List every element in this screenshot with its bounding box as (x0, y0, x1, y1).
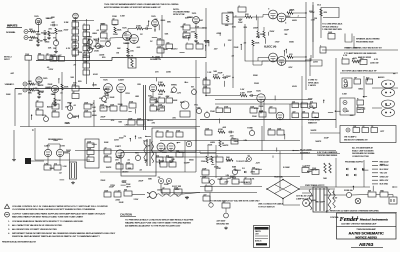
wire (31, 160, 44, 162)
wire bus (61, 72, 63, 110)
svg-text:500PF: 500PF (41, 32, 48, 34)
svg-text:100PF: 100PF (64, 151, 71, 153)
wire (286, 60, 306, 62)
power transformer T1 (313, 187, 327, 212)
wire (363, 76, 365, 98)
svg-text:20UF: 20UF (253, 27, 259, 29)
wire (120, 92, 122, 106)
svg-text:25UF: 25UF (324, 137, 330, 139)
svg-text:OUT: OUT (360, 58, 364, 60)
svg-text:8: 8 (342, 57, 343, 59)
tube V8A 12AT7 recovery (116, 150, 124, 158)
svg-text:.047: .047 (203, 194, 206, 196)
resistor R68 (150, 106, 157, 111)
wire bus (75, 19, 77, 58)
svg-text:.02: .02 (158, 96, 160, 98)
svg-text:SW: SW (368, 190, 371, 192)
ladder resistor R46 (83, 63, 90, 68)
svg-text:500PF: 500PF (315, 141, 322, 143)
svg-text:.02: .02 (239, 20, 242, 22)
capacitor C7 .02 (83, 53, 90, 58)
wire (335, 158, 337, 187)
wire (200, 186, 262, 188)
resistor R9 .02 (72, 36, 79, 41)
speaker jack oval 4 (382, 109, 395, 117)
wire (263, 99, 265, 141)
svg-text:TO RCA JACK: TO RCA JACK (238, 181, 251, 184)
tube V7A 12AT7 (44, 149, 51, 156)
svg-text:100PF: 100PF (311, 130, 318, 132)
boxes row bottom 2 (232, 179, 239, 184)
svg-text:1402 EAST CHESTNUT SANTA ANA: 1402 EAST CHESTNUT SANTA ANA CALIF (341, 223, 377, 226)
wire bus (289, 104, 291, 120)
svg-text:1.5K: 1.5K (207, 72, 212, 74)
diode D6 (354, 174, 356, 176)
pot R96 (249, 130, 254, 135)
wire (190, 27, 206, 29)
boxes row low 3 (312, 113, 319, 118)
wire color legend (372, 161, 378, 163)
svg-text:ALL CAPACITOR VALUES IN UF UNL: ALL CAPACITOR VALUES IN UF UNLESS NOTED (12, 224, 62, 227)
kit resistor 2 (371, 128, 378, 133)
wire (300, 186, 370, 188)
box pair bottom (128, 120, 135, 125)
bias feed resistor R34 (252, 40, 254, 46)
svg-text:VIBRATO: VIBRATO (5, 83, 15, 86)
ground (38, 96, 40, 97)
output tube V8 6L6GC (277, 13, 286, 22)
svg-text:LIST: LIST (255, 234, 259, 236)
resistor R50 plate (61, 84, 63, 90)
svg-text:SPKR JACK: SPKR JACK (308, 81, 319, 84)
svg-text:TO 4 OHM SPKR JACK: TO 4 OHM SPKR JACK (322, 23, 343, 26)
resistor R66 (158, 84, 165, 87)
svg-text:220K: 220K (255, 43, 260, 45)
svg-text:Musical Instruments: Musical Instruments (359, 218, 389, 222)
svg-text:NOTICE AB763: NOTICE AB763 (356, 236, 378, 240)
svg-text:20UF: 20UF (101, 117, 107, 119)
box pair 2 (366, 79, 373, 84)
resistor R79 (342, 59, 349, 64)
resistor R10 250P (72, 43, 79, 48)
ladder capacitor C22 (83, 70, 90, 75)
coil right (151, 141, 153, 163)
svg-text:4.7K: 4.7K (129, 56, 134, 58)
svg-text:220K: 220K (290, 9, 295, 11)
svg-text:VIB TO AMP 4: VIB TO AMP 4 (344, 136, 356, 139)
svg-text:470K: 470K (143, 140, 148, 142)
svg-text:PILOT LIGHT: PILOT LIGHT (300, 150, 312, 152)
svg-text:100PF: 100PF (38, 85, 45, 87)
resistor R51 cathode (54, 98, 56, 103)
svg-text:20UF: 20UF (138, 180, 144, 182)
svg-text:.02: .02 (36, 100, 38, 102)
ladder resistor R45 (83, 56, 90, 61)
svg-text:INPUT: INPUT (4, 59, 11, 61)
svg-text:440V: 440V (286, 16, 291, 18)
svg-text:6.3V TO ALL HEATERS: 6.3V TO ALL HEATERS (317, 151, 338, 154)
box C32 (360, 60, 367, 65)
svg-text:470: 470 (310, 101, 313, 103)
wire (64, 152, 70, 154)
svg-text:170V: 170V (275, 42, 280, 44)
treble pot R18 (88, 40, 93, 45)
resistor R23 cathode 1500 (127, 48, 129, 54)
wire stubs (386, 104, 390, 106)
svg-text:470K: 470K (217, 33, 222, 35)
svg-text:4.7K: 4.7K (374, 59, 379, 61)
svg-text:170V: 170V (306, 166, 311, 168)
svg-text:1.5K: 1.5K (63, 166, 68, 168)
wire bus (232, 12, 234, 62)
vibrato bug opto (181, 101, 189, 109)
resistor R17 (114, 27, 116, 33)
wire (372, 87, 398, 89)
capacitor C25 (120, 106, 127, 111)
wire (100, 171, 196, 173)
wire (301, 76, 303, 126)
svg-text:1M: 1M (104, 102, 107, 104)
boxes row low 2 (302, 113, 309, 118)
wire (352, 194, 368, 197)
resistor R11 10K (72, 50, 79, 55)
resistor R3 1M grid (37, 38, 39, 43)
svg-text:AUDIO: AUDIO (235, 169, 242, 172)
panel box 2 (166, 132, 173, 137)
resistor R49 1M (38, 90, 40, 95)
driver transformer core (146, 139, 148, 166)
extra box (216, 108, 223, 113)
resistor R2 68K (30, 36, 36, 38)
wire (15, 88, 22, 90)
ladder right cluster resistor R59 (84, 104, 91, 109)
svg-text:330K: 330K (163, 49, 168, 51)
wire (112, 58, 162, 61)
wire (263, 27, 265, 31)
wire (38, 25, 40, 32)
bass pot R58 (68, 114, 73, 119)
svg-text:220K: 220K (36, 34, 41, 36)
svg-text:250K: 250K (208, 144, 213, 146)
wire (79, 88, 100, 90)
kit capacitor (362, 128, 369, 133)
wire (36, 32, 39, 38)
resistor R55 (52, 112, 59, 117)
box pair 1 (354, 79, 361, 84)
svg-text:410V: 410V (157, 190, 162, 192)
cluster box (203, 196, 210, 201)
power switch SW1 (368, 192, 376, 197)
resistor R73 (203, 88, 210, 93)
svg-text:LIN: LIN (244, 140, 248, 142)
svg-text:LIN: LIN (226, 175, 230, 177)
input jack J2 (24, 36, 28, 40)
wire (100, 38, 123, 42)
svg-text:100K: 100K (49, 168, 54, 170)
wire (47, 157, 49, 165)
speaker jack oval 1 (382, 80, 395, 88)
resistor R85 (87, 143, 94, 148)
svg-text:220K 1W: 220K 1W (370, 63, 378, 65)
svg-text:YEL 52V: YEL 52V (380, 173, 388, 175)
wire (283, 199, 300, 206)
panel jack circle (186, 141, 192, 147)
svg-text:250K: 250K (92, 85, 97, 87)
speaker jack oval 3 (382, 100, 395, 108)
resistor R22 100K plate (136, 27, 143, 30)
AC plug P1 (389, 197, 397, 204)
bracket rect 2 (340, 98, 355, 115)
svg-text:330K: 330K (117, 30, 122, 32)
svg-text:100K: 100K (58, 31, 63, 33)
svg-text:100K: 100K (173, 100, 178, 102)
svg-text:AUDIO: AUDIO (378, 76, 385, 79)
svg-text:RED 410V: RED 410V (380, 162, 390, 164)
wire (279, 151, 281, 190)
svg-text:410V: 410V (98, 45, 103, 47)
feedback loop wire (245, 24, 311, 61)
svg-text:.003: .003 (227, 178, 231, 180)
svg-text:1M: 1M (90, 104, 93, 106)
svg-text:100K: 100K (187, 17, 192, 19)
wire bus (195, 130, 197, 172)
svg-text:.02: .02 (183, 23, 185, 25)
svg-text:.047: .047 (269, 106, 272, 108)
tube V3A 7025 (193, 17, 200, 24)
svg-text:VOL: VOL (105, 39, 108, 41)
wire stubs (224, 81, 226, 87)
note marker circle (5, 212, 10, 217)
wire bus (309, 58, 311, 76)
speed pot R70 (172, 88, 177, 93)
RCA jack J7 to reverb (25, 158, 31, 164)
svg-text:170V: 170V (60, 145, 65, 147)
capacitor C28 tremolo .02 (166, 98, 173, 103)
wire bus (161, 15, 163, 58)
diode D1 (244, 171, 246, 173)
wire (253, 61, 269, 65)
wire (388, 195, 393, 198)
wire (320, 20, 322, 38)
long wire (156, 152, 216, 154)
wire (107, 92, 109, 99)
svg-text:1.6V: 1.6V (116, 190, 121, 192)
RCA jack J9 (166, 178, 171, 183)
input jack J4 (23, 88, 27, 92)
svg-text:SPEAKER JACKS VIEWED: SPEAKER JACKS VIEWED (356, 38, 380, 41)
boxes row low (292, 113, 299, 118)
svg-text:.047: .047 (58, 55, 61, 57)
svg-text:100K: 100K (6, 94, 11, 96)
svg-text:330K: 330K (234, 141, 239, 143)
volume pot R6 1M (53, 40, 58, 45)
resistor R63 (100, 106, 107, 111)
capacitor C24 (36, 102, 43, 107)
svg-text:25UF: 25UF (247, 92, 253, 94)
capacitor C27 tremolo .02 (158, 98, 165, 103)
svg-text:500PF: 500PF (184, 162, 191, 164)
wire bus (86, 58, 88, 84)
socket circle (303, 200, 310, 207)
svg-text:250K: 250K (252, 116, 257, 118)
wire (132, 194, 145, 196)
bracket wire (345, 34, 352, 43)
output tube V9 6L6GC (269, 53, 278, 62)
svg-text:OUTPUT TUBES MATCHED PAIRS SUP: OUTPUT TUBES MATCHED PAIRS SUPPLIED WITH… (12, 212, 106, 215)
wire (72, 20, 94, 22)
panel box 1 (156, 132, 163, 137)
resistor R104 (252, 169, 259, 174)
wire (353, 36, 355, 48)
ladder capacitor C21 (58, 57, 65, 62)
svg-text:TONE: TONE (247, 128, 253, 130)
svg-text:250V: 250V (226, 76, 231, 78)
screen resistor R75 470 (287, 56, 293, 59)
tube V4B 7025 (104, 84, 113, 93)
wire (252, 17, 258, 31)
ground cap C54 (222, 203, 230, 208)
bias pot R103 (232, 169, 237, 174)
long wire (340, 72, 398, 74)
svg-text:MID BOOST CHANNEL KIT: MID BOOST CHANNEL KIT (344, 139, 368, 142)
wire (372, 107, 382, 109)
resistor R36 (328, 34, 335, 40)
ground (127, 54, 129, 55)
ground (225, 227, 227, 228)
mixing resistor R74 3.3M (213, 76, 220, 79)
svg-text:220K: 220K (126, 184, 131, 186)
svg-text:500PF: 500PF (230, 176, 236, 178)
svg-text:TIP BLK GRN BLU: TIP BLK GRN BLU (322, 26, 339, 28)
svg-text:.02: .02 (104, 147, 106, 149)
svg-text:440V: 440V (105, 89, 110, 91)
wire (154, 26, 156, 32)
wire bus mid3 (200, 153, 340, 155)
svg-text:SW: SW (124, 189, 127, 191)
wire (302, 192, 310, 194)
resistor R88 (116, 164, 123, 169)
svg-text:RED 405V: RED 405V (380, 165, 390, 167)
wire stubs (224, 44, 226, 47)
wire vertical (34, 128, 36, 160)
svg-text:125P34A: 125P34A (330, 216, 339, 219)
svg-text:100K: 100K (155, 58, 160, 60)
input jack J1 (24, 30, 28, 34)
boxes row mid (292, 103, 299, 108)
svg-text:20UF: 20UF (110, 97, 116, 99)
capacitor C50 (302, 168, 309, 173)
ground switch SW2 (380, 192, 388, 197)
svg-text:25UF: 25UF (101, 180, 107, 182)
svg-text:.047: .047 (199, 20, 203, 22)
svg-text:1.6V: 1.6V (240, 89, 245, 91)
circle jack (209, 203, 213, 207)
resistor R93 (176, 152, 183, 157)
resistor R87 (104, 157, 111, 162)
boxes row mid 3 (310, 103, 317, 108)
svg-text:225V: 225V (191, 32, 196, 34)
svg-text:1M: 1M (314, 18, 317, 20)
wire (200, 176, 300, 178)
tube V7B (56, 149, 63, 156)
wire (310, 132, 340, 134)
line cord (156, 194, 180, 197)
feedback loop wire (321, 8, 339, 21)
resistor R67 (158, 90, 165, 93)
capacitor C9 (112, 20, 118, 25)
resistor R86 (87, 150, 94, 155)
svg-text:250K: 250K (218, 179, 223, 181)
svg-text:CAUTION: CAUTION (120, 213, 132, 217)
resistor R54 (52, 104, 59, 109)
svg-text:225V: 225V (114, 139, 119, 141)
svg-text:AB763: AB763 (359, 242, 374, 247)
wire bus (152, 92, 154, 98)
resistor R99 (219, 140, 221, 147)
wire (205, 62, 207, 96)
feedback resistor R35 820 (320, 9, 322, 16)
wire (252, 46, 254, 61)
coil left (144, 141, 146, 163)
svg-text:.1: .1 (238, 5, 239, 7)
capacitor C12 .02 (183, 25, 190, 30)
coupling cap C42 (104, 149, 111, 154)
resistor R72 (203, 80, 210, 85)
svg-text:470K: 470K (216, 168, 221, 170)
wire bus (205, 8, 207, 58)
resistor R108 (312, 170, 319, 175)
wire (200, 192, 257, 194)
svg-text:INT: INT (191, 87, 194, 89)
svg-text:330K: 330K (53, 140, 58, 142)
reverb pot R90 (135, 155, 140, 160)
wire (299, 188, 335, 190)
diode D4 (362, 168, 364, 170)
jack circle 3 (343, 101, 347, 105)
svg-text:410V: 410V (308, 99, 313, 101)
box right 3 (357, 100, 364, 105)
svg-text:500PF: 500PF (223, 145, 230, 147)
wire (55, 34, 57, 40)
wire bus (215, 145, 217, 178)
capacitor C52 (114, 192, 121, 197)
ground (260, 110, 262, 111)
svg-text:20UF: 20UF (119, 202, 125, 204)
long wire (322, 49, 398, 51)
capacitor C6 6800 (83, 46, 90, 51)
svg-text:.02: .02 (244, 177, 246, 179)
svg-text:TO PREVENT A FAULT CONDITION W: TO PREVENT A FAULT CONDITION WHICH MAY R… (125, 219, 194, 222)
capacitor C43 (229, 131, 231, 134)
wire bus (261, 126, 263, 151)
svg-text:250V: 250V (238, 22, 243, 24)
resistor R1 68K (30, 30, 36, 32)
plate bus wire (305, 2, 307, 55)
svg-text:.02: .02 (362, 126, 364, 128)
svg-text:.1: .1 (235, 15, 237, 17)
capacitor C5 .047 (83, 39, 90, 44)
capacitor C29 (223, 76, 225, 79)
svg-text:330K: 330K (289, 41, 294, 43)
tube V6A 7025 mixer (257, 94, 265, 102)
svg-text:25UF: 25UF (218, 73, 224, 75)
svg-text:25UF: 25UF (113, 34, 119, 36)
bias balance diamond bridge (267, 180, 299, 199)
jack circle 4 (343, 108, 347, 112)
svg-text:25UF: 25UF (202, 168, 206, 170)
svg-text:25UF: 25UF (48, 84, 54, 86)
wire stubs (148, 119, 153, 121)
